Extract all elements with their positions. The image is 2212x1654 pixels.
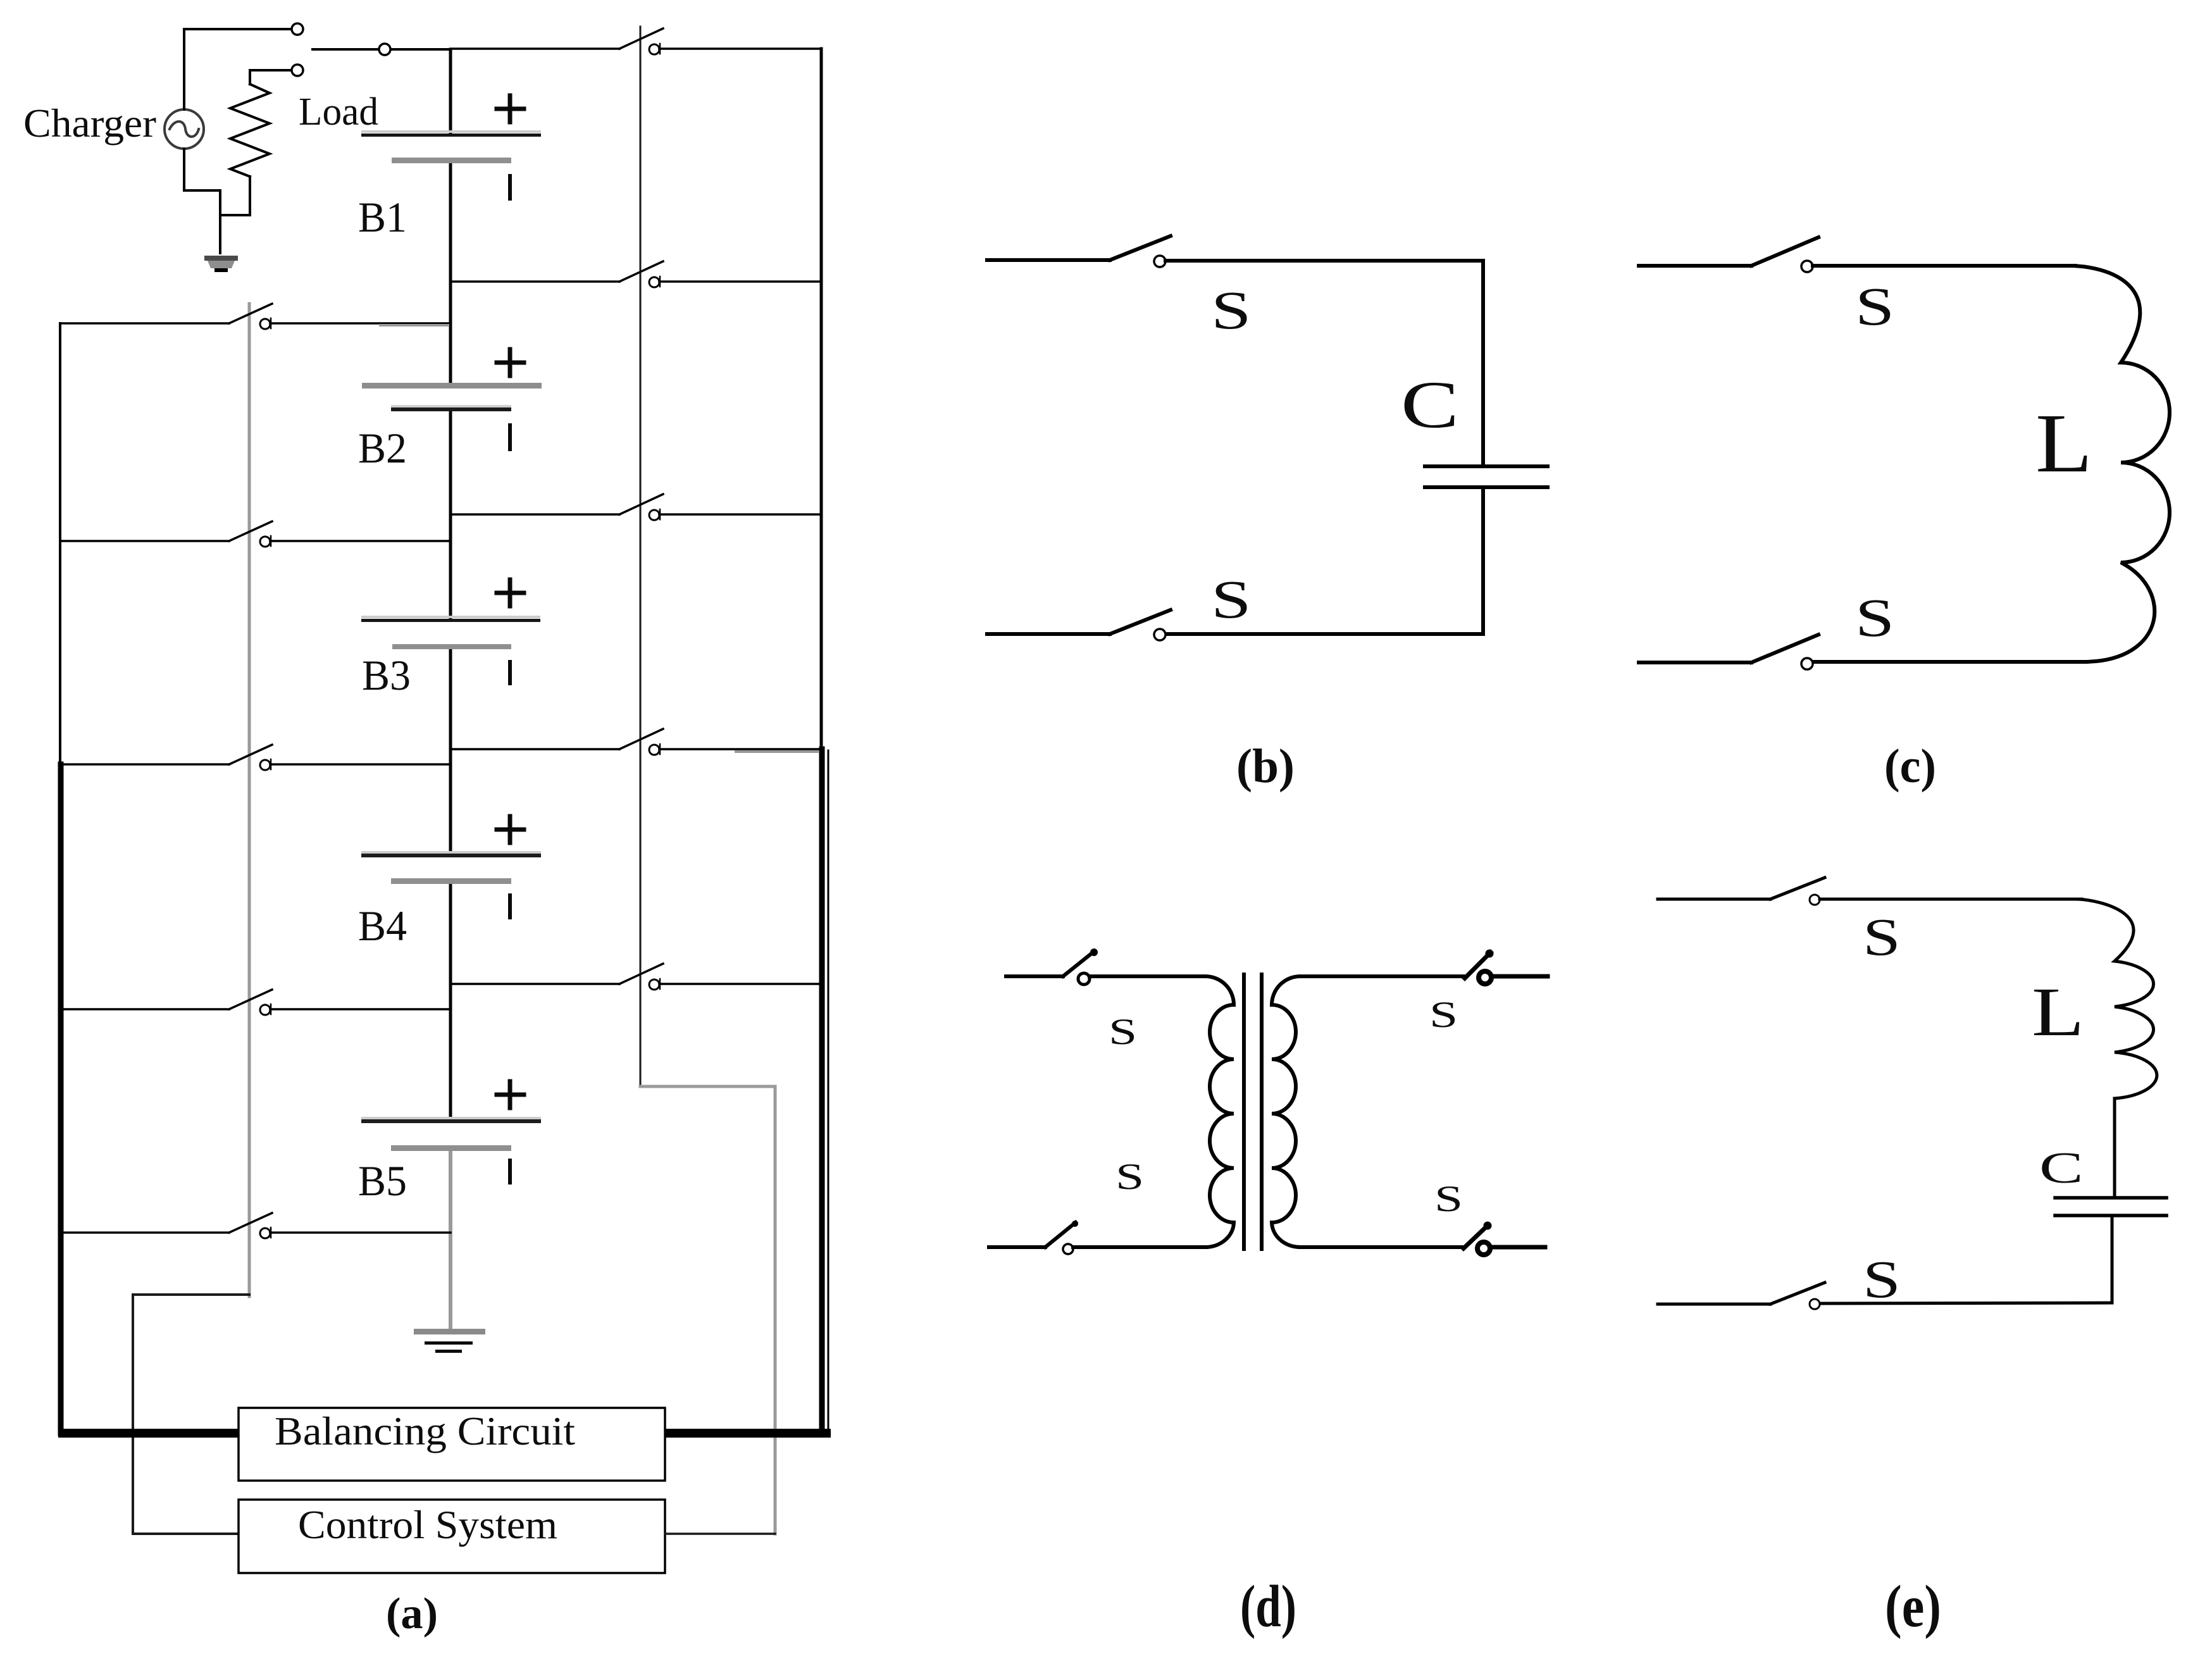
wire right vertical top (1481, 261, 1485, 465)
left switch SL2 (60, 521, 450, 547)
charger terminal circle (292, 23, 303, 35)
svg-text:S: S (1115, 1157, 1144, 1197)
svg-text:Control System: Control System (298, 1502, 557, 1547)
switch S top-left (1006, 948, 1205, 985)
right switch SW2 (450, 261, 821, 287)
left selector pole (gray) (248, 304, 251, 1296)
svg-text:(a): (a) (386, 1589, 438, 1638)
battery B1 (361, 96, 541, 199)
charger ground (204, 256, 238, 272)
wire control box right to gray pole (665, 1533, 775, 1535)
wire B5 to ground (gray) (449, 1150, 452, 1331)
right selector pole (thin) (640, 27, 642, 1086)
switch S top (1658, 878, 2082, 905)
svg-text:S: S (1863, 1250, 1901, 1309)
battery column wire segments (449, 49, 452, 134)
switch S bottom (1658, 1283, 2112, 1309)
svg-text:S: S (1429, 995, 1458, 1035)
capacitor C (2055, 1198, 2166, 1216)
svg-text:S: S (1855, 276, 1894, 337)
left switch SL4 (60, 990, 450, 1015)
wire charger top to terminal (184, 29, 291, 109)
transformer right winding (1272, 976, 1300, 1247)
right switch SW3 (450, 494, 821, 520)
left bus (thick lower part) (58, 764, 64, 1433)
load terminal circle (292, 65, 303, 76)
battery B3 (361, 580, 540, 683)
svg-text:B2: B2 (358, 424, 407, 472)
svg-text:S: S (1109, 1012, 1137, 1052)
svg-text:B4: B4 (358, 902, 407, 950)
right switch SW5 (450, 964, 821, 990)
switch S bottom-right (1300, 1222, 1545, 1255)
battery stack ground (414, 1329, 485, 1353)
transformer left winding (1205, 976, 1234, 1247)
svg-text:B5: B5 (358, 1157, 407, 1205)
right bus (thin upper part) (820, 49, 823, 749)
Control System box (239, 1500, 665, 1573)
svg-text:C: C (1401, 367, 1459, 442)
charger AC source symbol (165, 109, 204, 149)
wire charger bottom (184, 149, 220, 253)
right pole jog to control (gray) (640, 1086, 775, 1534)
left pole jog to control (133, 1295, 249, 1534)
left switch SL3 (60, 745, 450, 770)
transformer core (1242, 974, 1246, 1249)
wire L to C (2113, 1098, 2116, 1198)
switch S bottom-left (989, 1221, 1205, 1254)
right auxiliary line (828, 750, 829, 1429)
svg-text:(e): (e) (1885, 1574, 1941, 1639)
wire load top to terminal (250, 70, 291, 84)
wire load bottom (220, 177, 250, 215)
battery B4 (361, 816, 541, 917)
svg-text:Charger: Charger (23, 101, 156, 146)
thick bar balancing box to right bus (664, 1429, 831, 1438)
svg-text:(b): (b) (1236, 740, 1295, 793)
switch S top (1639, 237, 2075, 272)
wire battery stack top node (313, 48, 450, 51)
switch S top-right (1300, 950, 1548, 985)
right switch SW1 (450, 28, 821, 54)
svg-text:B1: B1 (358, 193, 407, 241)
svg-text:L: L (2032, 973, 2084, 1050)
svg-text:Load: Load (299, 90, 378, 134)
battery B5 (361, 1081, 541, 1183)
left bus (thin upper part) (59, 323, 61, 764)
left switch SL5 (60, 1213, 450, 1238)
svg-text:S: S (1855, 587, 1894, 648)
stack top terminal circle (379, 44, 390, 55)
svg-text:(c): (c) (1884, 740, 1936, 793)
inductor L coil (2069, 266, 2170, 662)
right switch SW4 (450, 729, 821, 755)
svg-text:L: L (2035, 397, 2092, 490)
svg-text:C: C (2039, 1144, 2084, 1193)
thick bar left bus to balancing box (58, 1429, 239, 1438)
switch S top (987, 236, 1483, 267)
svg-text:Balancing Circuit: Balancing Circuit (275, 1408, 575, 1453)
inductor L coil (2075, 899, 2157, 1098)
svg-text:B3: B3 (362, 651, 411, 699)
svg-text:S: S (1211, 280, 1252, 340)
left switch SL1 (60, 304, 450, 329)
right bus (thick lower part) (819, 749, 825, 1433)
switch S bottom (987, 610, 1483, 640)
battery B2 (362, 349, 542, 449)
svg-text:S: S (1863, 907, 1901, 966)
Balancing Circuit box (239, 1408, 665, 1481)
svg-text:S: S (1434, 1179, 1463, 1219)
svg-text:(d): (d) (1240, 1574, 1296, 1639)
load resistor R (230, 84, 270, 177)
capacitor C (1425, 466, 1548, 487)
wire C to bottom (2111, 1216, 2114, 1303)
svg-text:S: S (1211, 569, 1252, 630)
switch S bottom (1639, 635, 2085, 669)
wire right vertical bottom (1481, 487, 1485, 634)
